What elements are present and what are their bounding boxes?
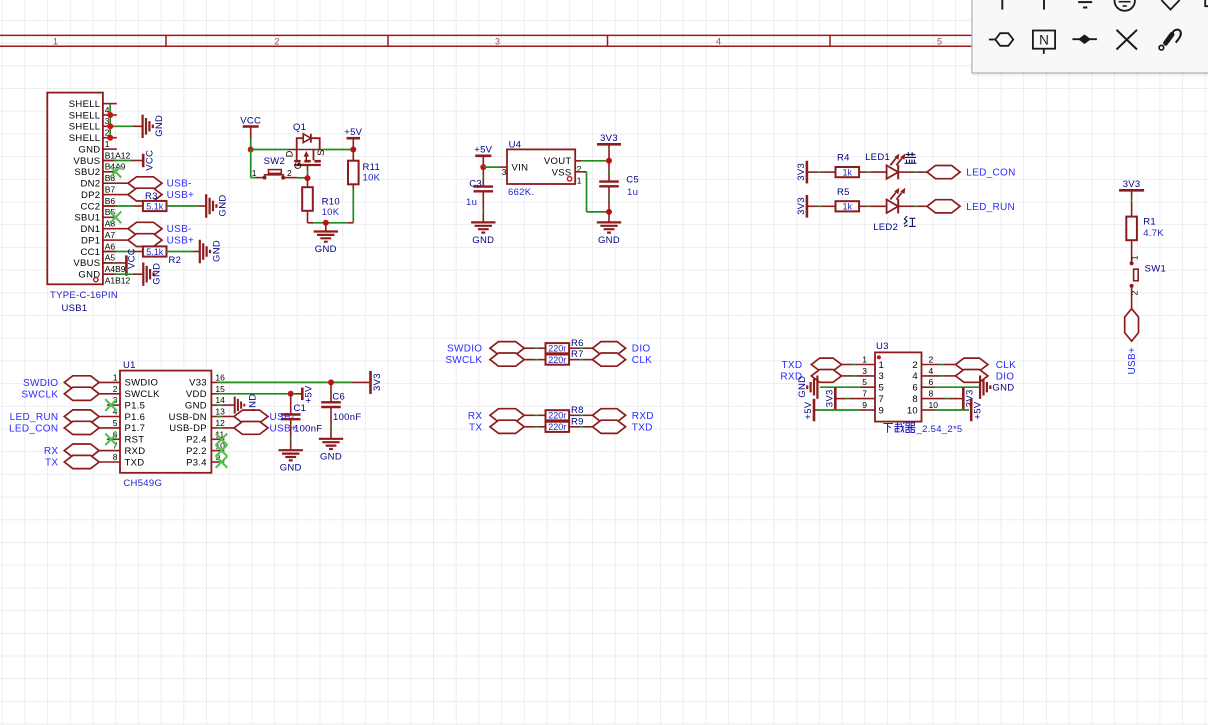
power 3V3 at R4 xyxy=(806,161,809,184)
USB1 pin B8 SBU2 xyxy=(103,171,117,173)
svg-text:B1A12: B1A12 xyxy=(105,150,131,160)
toolbar icon no-connect X xyxy=(1117,30,1138,50)
svg-text:USB-: USB- xyxy=(167,179,192,190)
USB1 pin A8 SBU1 xyxy=(103,216,117,218)
svg-text:SW1: SW1 xyxy=(1145,264,1167,275)
ground GND below C6 xyxy=(319,439,343,449)
junction xyxy=(107,112,113,118)
net port USB+ (DP2) xyxy=(128,188,162,201)
wire R1 to SW1 xyxy=(1131,240,1133,263)
toolbar icon protective earth xyxy=(1115,0,1135,11)
svg-text:2: 2 xyxy=(577,164,582,174)
power VCC above Q1 xyxy=(243,125,259,128)
svg-text:12: 12 xyxy=(215,418,225,428)
LED LED1 xyxy=(887,165,899,178)
svg-text:4.7K: 4.7K xyxy=(1143,228,1164,239)
svg-text:GND: GND xyxy=(154,115,165,137)
wire R6 to DIO xyxy=(569,347,580,349)
wire SWCLK to R7 xyxy=(524,359,535,361)
svg-text:C6: C6 xyxy=(332,392,345,403)
svg-text:D: D xyxy=(284,150,294,157)
svg-text:GND: GND xyxy=(280,463,302,474)
wire Q1 source to +5V xyxy=(322,149,354,151)
wire C3 to GND xyxy=(482,191,484,222)
svg-text:14: 14 xyxy=(215,395,225,405)
U1 no-connect pin xyxy=(211,438,224,440)
ground GND below Q1 xyxy=(325,223,327,232)
svg-text:R2: R2 xyxy=(169,255,182,266)
svg-text:1: 1 xyxy=(1130,255,1140,260)
net port USB+ (DP1) xyxy=(128,234,162,247)
svg-text:A5: A5 xyxy=(105,253,116,263)
wire RXD to U3 pin3 xyxy=(842,375,853,377)
svg-text:GND: GND xyxy=(211,240,222,262)
svg-text:100nF: 100nF xyxy=(294,423,322,434)
net port RX xyxy=(64,444,99,457)
svg-text:B7: B7 xyxy=(105,184,116,194)
wire U3 pin10 to +5V xyxy=(922,409,935,411)
USB1 pin A4B9 VBUS xyxy=(103,262,117,264)
svg-text:USB+: USB+ xyxy=(167,190,195,201)
wire VCC to Q1 drain xyxy=(251,149,289,151)
svg-text:CC2: CC2 xyxy=(80,201,100,212)
capacitor C5 1u xyxy=(608,161,610,182)
svg-text:LED_RUN: LED_RUN xyxy=(10,412,59,423)
svg-text:2: 2 xyxy=(274,36,279,46)
USB1 pin B4A9 VBUS xyxy=(103,160,117,162)
svg-text:SW2: SW2 xyxy=(264,156,286,167)
USB1 pin A5 CC1 xyxy=(103,251,117,253)
svg-text:A6: A6 xyxy=(105,241,116,251)
wire DP1 xyxy=(117,239,128,241)
svg-text:3: 3 xyxy=(502,167,507,177)
USB1 pin A6 DP1 xyxy=(103,239,117,241)
net port SWDIO (series) xyxy=(490,342,524,355)
LED1 color glyph 蓝 xyxy=(906,152,916,156)
svg-text:G: G xyxy=(293,162,303,169)
svg-text:P1.7: P1.7 xyxy=(125,423,146,434)
net port SWCLK (series) xyxy=(490,353,524,366)
svg-text:4: 4 xyxy=(912,371,918,382)
junction xyxy=(328,379,334,385)
svg-text:SWCLK: SWCLK xyxy=(125,389,161,400)
svg-text:LED_CON: LED_CON xyxy=(966,168,1015,179)
svg-text:3V3: 3V3 xyxy=(796,197,807,215)
junction xyxy=(248,147,254,153)
svg-text:R10: R10 xyxy=(322,197,340,208)
svg-text:1: 1 xyxy=(53,36,58,46)
svg-text:U3: U3 xyxy=(876,341,889,352)
wire LED_CON to U1 xyxy=(99,427,120,429)
wire U1 V33 to 3V3 xyxy=(211,381,217,383)
toolbar icon wire tool xyxy=(1159,45,1164,50)
svg-text:1: 1 xyxy=(879,360,885,371)
net port USB+ (vertical) xyxy=(1125,309,1139,342)
wire DP2 xyxy=(117,194,128,196)
ground GND at R3 xyxy=(206,194,216,217)
wire R2 to GND xyxy=(167,251,193,253)
wire SHELL bus xyxy=(109,104,111,138)
svg-text:_2.54_2*5: _2.54_2*5 xyxy=(916,424,963,435)
svg-text:10: 10 xyxy=(907,405,918,416)
svg-text:2: 2 xyxy=(113,384,118,394)
USB1 pin B5 CC2 xyxy=(103,205,117,207)
net port SWCLK xyxy=(64,387,99,400)
svg-text:C3: C3 xyxy=(469,179,482,190)
svg-text:1: 1 xyxy=(113,372,118,382)
svg-text:GND: GND xyxy=(78,144,100,155)
svg-text:USB-DN: USB-DN xyxy=(169,412,207,423)
ground GND at U1 pin14 xyxy=(235,397,245,414)
net port SWDIO xyxy=(64,376,99,389)
capacitor C1 100nF xyxy=(290,394,292,415)
wire U1 VDD to +5V xyxy=(211,393,217,395)
ground GND below C3 xyxy=(471,222,495,232)
svg-text:RXD: RXD xyxy=(632,411,654,422)
svg-text:DN2: DN2 xyxy=(80,179,100,190)
U3 value downloader 2.54 2x5 xyxy=(883,423,893,432)
net port DIO at U3 xyxy=(956,370,988,383)
net port CLK at U3 xyxy=(956,358,988,371)
svg-text:220r: 220r xyxy=(548,411,566,421)
svg-text:1: 1 xyxy=(577,176,582,186)
svg-text:1k: 1k xyxy=(843,168,853,178)
svg-text:CH549G: CH549G xyxy=(123,478,162,489)
ground GND at U3 pin5 xyxy=(807,376,817,399)
power +5V above R11 xyxy=(347,137,361,140)
svg-text:SWCLK: SWCLK xyxy=(445,355,482,366)
svg-text:13: 13 xyxy=(215,407,225,417)
svg-text:TXD: TXD xyxy=(781,360,802,371)
toolbar icon net port xyxy=(989,39,995,41)
svg-text:DIO: DIO xyxy=(632,344,651,355)
svg-text:GND: GND xyxy=(320,451,342,462)
power VCC at VBUS B4A9 xyxy=(142,154,145,167)
toolbar icon net flag diamond xyxy=(1161,0,1179,10)
net port USB- (DN2) xyxy=(128,177,162,190)
ground GND at A1B12 xyxy=(143,263,153,286)
svg-text:USB-DP: USB-DP xyxy=(169,423,207,434)
wire R9 to TXD xyxy=(569,426,580,428)
svg-text:USB1: USB1 xyxy=(62,303,88,314)
svg-text:3V3: 3V3 xyxy=(796,163,807,181)
svg-text:R6: R6 xyxy=(571,338,584,349)
wire SWDIO to U1 xyxy=(99,381,120,383)
power 3V3 at R5 xyxy=(806,195,809,218)
svg-text:220r: 220r xyxy=(548,344,566,354)
wire RX to R8 xyxy=(524,414,535,416)
wire U3 pin6 to GND xyxy=(922,386,935,388)
svg-text:P3.4: P3.4 xyxy=(186,457,207,468)
net port USB+ at U1 xyxy=(234,422,268,435)
net port USB- at U1 xyxy=(234,410,268,423)
svg-text:2: 2 xyxy=(287,168,292,178)
svg-text:5: 5 xyxy=(879,383,885,394)
power +5V right of U1 xyxy=(301,388,304,401)
wire U1 USB-DP xyxy=(211,427,217,429)
wire +5V to U3 pin9 xyxy=(814,409,818,411)
toolbar panel xyxy=(972,0,1208,73)
net port TXD (series) xyxy=(593,420,626,433)
svg-text:Q1: Q1 xyxy=(293,122,306,133)
wire R11 to GND rail xyxy=(352,184,354,189)
svg-text:220r: 220r xyxy=(548,422,566,432)
svg-text:GND: GND xyxy=(797,376,808,398)
svg-text:5.1k: 5.1k xyxy=(146,201,164,211)
svg-text:USB+: USB+ xyxy=(1127,347,1138,375)
svg-text:5: 5 xyxy=(862,377,867,387)
wire SWDIO to R6 xyxy=(524,347,535,349)
svg-text:USB-: USB- xyxy=(270,412,295,423)
svg-text:9: 9 xyxy=(862,400,867,410)
svg-text:R1: R1 xyxy=(1143,216,1156,227)
net port CLK (series) xyxy=(593,353,626,366)
svg-text:VBUS: VBUS xyxy=(73,258,100,269)
svg-text:1: 1 xyxy=(862,355,867,365)
power +5V at U4 input xyxy=(475,155,491,158)
svg-text:DP1: DP1 xyxy=(81,235,100,246)
USB1 pin A7 DN1 xyxy=(103,228,117,230)
wire R10 to GND rail xyxy=(307,211,309,223)
svg-text:+5V: +5V xyxy=(803,401,814,419)
power 3V3 at U3 pin7 xyxy=(834,387,837,410)
wire U3 pin8 to 3V3 xyxy=(922,398,946,400)
toolbar icon pin 1 xyxy=(1001,0,1003,10)
svg-text:RX: RX xyxy=(468,411,483,422)
svg-text:RST: RST xyxy=(125,435,145,446)
svg-text:GND: GND xyxy=(218,194,229,216)
svg-text:TX: TX xyxy=(45,458,58,469)
svg-text:V33: V33 xyxy=(189,378,207,389)
net port TX xyxy=(64,455,99,468)
junction xyxy=(323,220,329,226)
svg-text:TYPE-C-16PIN: TYPE-C-16PIN xyxy=(50,290,118,301)
wire VBUS B4A9 xyxy=(103,160,114,162)
net port LED_RUN xyxy=(927,200,960,213)
svg-text:1u: 1u xyxy=(466,197,477,208)
svg-text:1: 1 xyxy=(252,168,257,178)
svg-text:SHELL: SHELL xyxy=(69,110,101,121)
wire U3 pin4 to DIO xyxy=(922,375,941,377)
wire R5 to LED2 xyxy=(859,205,866,207)
svg-text:RXD: RXD xyxy=(125,446,146,457)
net port TX (series) xyxy=(490,420,524,433)
svg-text:R4: R4 xyxy=(837,153,850,164)
svg-text:3V3: 3V3 xyxy=(1123,179,1141,190)
svg-text:3V3: 3V3 xyxy=(824,389,835,407)
svg-text:A1B12: A1B12 xyxy=(105,275,131,285)
U1 no-connect pin xyxy=(211,461,224,463)
wire RX to U1 xyxy=(99,450,120,452)
toolbar icon pin 2 xyxy=(1043,0,1045,10)
svg-text:10K: 10K xyxy=(322,207,340,218)
power 3V3 at U3 pin8 xyxy=(962,387,965,410)
svg-text:SBU2: SBU2 xyxy=(74,167,100,178)
wire U3 pin2 to CLK xyxy=(922,364,941,366)
power VCC at VBUS A4B9 xyxy=(125,255,128,275)
svg-text:SWDIO: SWDIO xyxy=(23,378,58,389)
svg-text:+5V: +5V xyxy=(304,385,315,403)
svg-text:R11: R11 xyxy=(363,162,381,173)
svg-text:LED1: LED1 xyxy=(865,152,890,163)
svg-text:5: 5 xyxy=(113,418,118,428)
wire 3V3 to U3 pin7 xyxy=(835,398,845,400)
svg-text:+5V: +5V xyxy=(474,145,492,156)
USB1 pin 3 SHELL xyxy=(103,114,117,116)
net port RX (series) xyxy=(490,409,524,422)
svg-text:SHELL: SHELL xyxy=(69,133,101,144)
power 3V3 above C5 xyxy=(597,143,621,146)
svg-text:SWDIO: SWDIO xyxy=(125,378,159,389)
svg-text:USB+: USB+ xyxy=(270,423,298,434)
wire TX to R9 xyxy=(524,426,535,428)
wire SWCLK to U1 xyxy=(99,393,120,395)
wire VCC down to SW2 xyxy=(250,150,252,178)
wire GND to U3 pin5 xyxy=(820,386,860,388)
wire C5 to GND xyxy=(608,212,610,223)
wire CC1 to R2 xyxy=(103,251,115,253)
svg-text:GND: GND xyxy=(598,235,620,246)
svg-text:6: 6 xyxy=(929,377,934,387)
junction xyxy=(606,158,612,164)
svg-text:TX: TX xyxy=(469,422,482,433)
USB1 pin B6 DP2 xyxy=(103,194,117,196)
power 3V3 right of U1 xyxy=(369,371,372,394)
junction xyxy=(606,209,612,215)
ground GND below C1 xyxy=(279,450,303,460)
svg-text:U1: U1 xyxy=(123,360,136,371)
svg-text:P2.4: P2.4 xyxy=(186,435,207,446)
wire DN2 xyxy=(117,182,128,184)
svg-text:USB-: USB- xyxy=(167,224,192,235)
svg-text:1u: 1u xyxy=(627,187,638,198)
svg-text:DN1: DN1 xyxy=(80,224,100,235)
wire R7 to CLK xyxy=(569,359,580,361)
ground GND below C5 xyxy=(597,222,621,232)
wire TXD to U3 pin1 xyxy=(842,364,853,366)
wire U1 GND pin xyxy=(211,404,217,406)
svg-text:VCC: VCC xyxy=(240,115,261,126)
svg-text:C1: C1 xyxy=(294,403,307,414)
svg-text:C5: C5 xyxy=(626,174,639,185)
svg-text:3V3: 3V3 xyxy=(600,133,618,144)
USB1 pin 4 SHELL xyxy=(103,103,117,105)
svg-text:16: 16 xyxy=(215,372,225,382)
svg-text:GND: GND xyxy=(151,263,162,285)
resistor R10 10K xyxy=(307,178,309,187)
USB1 pin 2 SHELL xyxy=(103,125,117,127)
capacitor C3 1u xyxy=(482,167,484,187)
net port LED_RUN xyxy=(64,410,99,423)
svg-text:DP2: DP2 xyxy=(81,190,100,201)
no-connect SBU2 xyxy=(110,166,122,178)
USB1 pin B1A12 GND xyxy=(103,148,117,150)
svg-text:GND: GND xyxy=(992,383,1014,394)
resistor R7 220r xyxy=(546,355,570,365)
wire CC2 to R3 xyxy=(103,205,115,207)
svg-text:SHELL: SHELL xyxy=(69,99,101,110)
svg-text:5: 5 xyxy=(937,36,942,46)
ground GND at R2 xyxy=(200,240,210,263)
svg-text:VCC: VCC xyxy=(145,150,156,171)
U1 no-connect pin xyxy=(107,404,120,406)
svg-text:CLK: CLK xyxy=(996,360,1016,371)
svg-text:9: 9 xyxy=(879,405,885,416)
svg-text:R8: R8 xyxy=(571,405,584,416)
wire U4 VOUT to 3V3 xyxy=(575,160,581,162)
power 3V3 above R1 xyxy=(1119,189,1144,192)
svg-text:CLK: CLK xyxy=(632,355,652,366)
power +5V at U3 pin10 xyxy=(970,399,973,422)
wire LED_RUN to U1 xyxy=(99,416,120,418)
net port RXD at U3 xyxy=(811,370,841,383)
no-connect SBU1 xyxy=(110,212,122,224)
svg-text:2: 2 xyxy=(912,360,918,371)
wire SHELL to GND xyxy=(110,125,133,127)
junction xyxy=(480,164,486,170)
connector USB1 body xyxy=(47,93,103,285)
svg-text:220r: 220r xyxy=(548,355,566,365)
toolbar icon net flag xyxy=(1072,38,1097,40)
wire 3V3 to R4 xyxy=(807,171,818,173)
wire GND rail xyxy=(308,222,314,224)
svg-text:SWDIO: SWDIO xyxy=(447,344,482,355)
svg-text:R7: R7 xyxy=(571,349,584,360)
svg-text:A4B9: A4B9 xyxy=(105,264,126,274)
svg-text:A7: A7 xyxy=(105,230,116,240)
sheet border ruler xyxy=(0,34,1208,36)
svg-text:SWCLK: SWCLK xyxy=(21,389,58,400)
svg-text:TXD: TXD xyxy=(632,422,653,433)
svg-text:10: 10 xyxy=(929,400,939,410)
svg-text:10K: 10K xyxy=(363,173,381,184)
svg-text:100nF: 100nF xyxy=(333,412,361,423)
junction xyxy=(350,147,356,153)
svg-text:SBU1: SBU1 xyxy=(74,213,100,224)
svg-text:VDD: VDD xyxy=(186,389,207,400)
USB1 pin A1B12 GND xyxy=(103,273,117,275)
svg-text:TXD: TXD xyxy=(125,457,145,468)
svg-text:5.1k: 5.1k xyxy=(146,247,164,257)
svg-text:P2.2: P2.2 xyxy=(186,446,207,457)
svg-text:VBUS: VBUS xyxy=(73,156,100,167)
USB1 pin B7 DN2 xyxy=(103,182,117,184)
svg-text:S: S xyxy=(316,150,326,156)
svg-text:R5: R5 xyxy=(837,187,850,198)
wire U1 USB-DN xyxy=(211,416,217,418)
svg-text:3: 3 xyxy=(495,36,500,46)
net port LED_CON xyxy=(64,421,99,434)
svg-text:4: 4 xyxy=(716,36,721,46)
wire SW1 to USB+ port xyxy=(1131,286,1133,309)
svg-text:GND: GND xyxy=(315,244,337,255)
resistor R11 10K xyxy=(352,150,354,161)
net port RXD (series) xyxy=(593,409,626,422)
resistor R2 5.1k xyxy=(143,246,167,256)
wire 3V3 to R5 xyxy=(807,205,818,207)
svg-text:3: 3 xyxy=(879,371,885,382)
wire TX to U1 xyxy=(99,461,120,463)
svg-text:3V3: 3V3 xyxy=(372,373,383,391)
capacitor C6 100nF xyxy=(330,382,332,402)
toolbar icon ground xyxy=(1078,1,1092,3)
wire R8 to RXD xyxy=(569,414,580,416)
ground GND at U3 pin6 xyxy=(980,376,990,399)
svg-text:P1.6: P1.6 xyxy=(125,412,146,423)
svg-text:2: 2 xyxy=(929,355,934,365)
wire Q1 gate down xyxy=(307,165,309,170)
wire DN1 xyxy=(117,228,128,230)
